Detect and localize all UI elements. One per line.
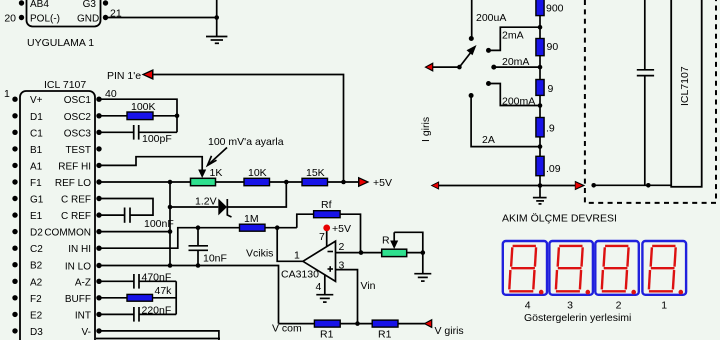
capacitor C bypass [644, 0, 646, 70]
wire node A to op-amp output [277, 228, 303, 262]
pin C2 [12, 246, 17, 251]
wire 20mA [494, 66, 540, 68]
wiper arrow of 1K [198, 170, 206, 179]
svg-text:C REF: C REF [61, 195, 91, 206]
pin F2 [12, 295, 17, 300]
switch SW1 wiper [457, 65, 462, 70]
pin IN HI [96, 246, 101, 251]
pin 7 +5V [326, 228, 328, 246]
wire pot to 10K [216, 181, 245, 183]
svg-text:REF LO: REF LO [55, 178, 91, 189]
wire chain [539, 137, 541, 156]
junction zener anode [168, 205, 173, 210]
svg-text:1: 1 [294, 250, 300, 262]
svg-text:OSC3: OSC3 [64, 128, 92, 139]
wire 47k to bus [153, 297, 177, 299]
pin C REF 2 [96, 212, 101, 217]
svg-text:AB4: AB4 [30, 0, 49, 10]
svg-text:10nF: 10nF [203, 253, 227, 265]
wire OSC3 to C 100pF [99, 131, 133, 133]
ground [414, 274, 431, 281]
svg-text:PIN 1'e: PIN 1'e [107, 70, 141, 82]
plus sign [328, 266, 334, 272]
op-amp U3 CA3130 [303, 241, 336, 281]
wire pot right [407, 252, 423, 254]
svg-text:R: R [382, 235, 390, 247]
resistor 100K [127, 112, 153, 120]
wire OSC2 to 100K [99, 115, 127, 117]
svg-text:100 mV'a ayarla: 100 mV'a ayarla [208, 136, 284, 148]
junction 10nF bottom [196, 263, 201, 268]
svg-text:+5V: +5V [332, 223, 351, 235]
wire 100pF to OSC1 line [139, 131, 177, 133]
svg-text:2: 2 [339, 241, 345, 253]
wire vertical to top [216, 0, 218, 37]
junction Vin [355, 321, 360, 326]
pin BUFF [96, 295, 101, 300]
contact 20mA [491, 65, 496, 70]
terminal arrow I giris [424, 62, 433, 72]
pin 21 GND [103, 15, 108, 20]
resistor 90 [536, 39, 544, 56]
resistor 47k [127, 294, 153, 301]
pin TEST [96, 146, 101, 151]
junction 10nF top [196, 225, 201, 230]
wire A-Z to 470nF [99, 280, 134, 282]
svg-text:AKIM ÖLÇME DEVRESI: AKIM ÖLÇME DEVRESI [502, 213, 617, 225]
wire R1 to V giris [398, 323, 425, 325]
wire R1 to R1 [340, 323, 372, 325]
terminal arrow left of rail [431, 181, 440, 190]
potentiometer 1K [191, 178, 216, 185]
svg-text:2A: 2A [482, 134, 495, 146]
terminal arrow V giris [423, 319, 432, 329]
wire 2mA [489, 27, 541, 50]
wire wiper to right node [394, 232, 423, 273]
svg-text:4: 4 [316, 281, 322, 293]
svg-text:D1: D1 [30, 112, 43, 123]
capacitor 220nF [134, 307, 139, 322]
wire V- [99, 331, 219, 340]
svg-text:.9: .9 [546, 123, 555, 135]
pin OSC3 [96, 130, 101, 135]
junction node A [275, 225, 280, 230]
wire REF LO to rail [99, 181, 191, 183]
svg-text:R1: R1 [378, 329, 392, 340]
wire to switch pivot [433, 66, 459, 68]
pin OSC2 [96, 113, 101, 118]
pin F1 [12, 179, 17, 184]
capacitor 100nF [125, 208, 130, 223]
svg-text:2: 2 [616, 300, 622, 312]
wiper arrow of R [393, 232, 395, 243]
svg-text:47k: 47k [155, 285, 173, 297]
junction 200mA tap [538, 103, 543, 108]
contact 200mA [486, 81, 491, 86]
display DS4 [503, 241, 547, 295]
wire IN HI to 1M row [99, 228, 240, 249]
svg-text:REF HI: REF HI [58, 161, 91, 172]
svg-text:GND: GND [77, 14, 99, 25]
wire chain [539, 95, 541, 117]
pin D2 [12, 229, 17, 234]
pin 20 POL(-) [19, 15, 24, 20]
svg-text:E2: E2 [30, 310, 43, 321]
pin B1 [12, 146, 17, 151]
svg-text:100K: 100K [131, 101, 156, 113]
wire 100K to OSC1 line [153, 115, 177, 117]
pin B2 [12, 262, 17, 267]
wire PIN 1'e to +5V node [153, 75, 344, 183]
svg-text:ICL 7107: ICL 7107 [44, 79, 86, 91]
svg-text:BUFF: BUFF [65, 294, 91, 305]
svg-text:F2: F2 [30, 294, 42, 305]
wire bottom rail [439, 185, 578, 187]
wire OSC1 [99, 99, 177, 132]
svg-text:UYGULAMA 1: UYGULAMA 1 [27, 37, 94, 49]
svg-text:G1: G1 [30, 195, 44, 206]
terminal arrow to dashed box [575, 181, 586, 191]
wire chain [539, 16, 541, 39]
wire INT to 220nF [99, 313, 134, 315]
wire REF HI to pot wiper [99, 157, 202, 171]
wire 200mA [489, 84, 541, 106]
svg-text:CA3130: CA3130 [281, 269, 319, 281]
minus sign [328, 251, 334, 253]
resistor R1 [314, 320, 340, 327]
svg-text:3: 3 [339, 260, 345, 272]
pin V- [96, 328, 101, 333]
svg-text:3: 3 [567, 300, 573, 312]
svg-text:E1: E1 [30, 211, 43, 222]
diode D1 1.2V [218, 199, 227, 216]
junction 2mA tap [538, 25, 543, 30]
svg-text:15K: 15K [306, 167, 325, 179]
svg-text:OSC2: OSC2 [64, 112, 92, 123]
svg-text:7: 7 [319, 231, 325, 243]
resistor 1M [240, 224, 266, 231]
svg-text:B2: B2 [30, 261, 43, 272]
wire 10K to 15K [270, 181, 303, 183]
wire inside dashed box [594, 184, 672, 186]
pin COMMON [96, 229, 101, 234]
pin A2 [12, 279, 17, 284]
terminal arrow PIN 1'e [142, 69, 154, 80]
wire 200uA [471, 0, 473, 39]
ground [533, 198, 547, 204]
svg-text:40: 40 [105, 88, 117, 100]
svg-text:INT: INT [75, 310, 91, 321]
wire zener anode [170, 206, 218, 208]
svg-text:C2: C2 [30, 244, 43, 255]
contact 2A [469, 93, 474, 98]
svg-text:+5V: +5V [373, 177, 392, 189]
svg-text:4: 4 [525, 300, 531, 312]
svg-text:V-: V- [82, 327, 91, 338]
svg-text:.09: .09 [546, 163, 561, 175]
pin G3 [103, 0, 108, 5]
wire 15K to +5V [328, 181, 361, 183]
svg-text:90: 90 [547, 41, 559, 53]
ground [206, 37, 227, 44]
pin A1 [12, 163, 17, 168]
svg-text:C1: C1 [30, 128, 43, 139]
wire IN LO row [99, 266, 279, 324]
wire GND pin row [96, 338, 220, 340]
svg-text:Vin: Vin [361, 280, 376, 292]
wire zener cathode to rail [227, 182, 286, 207]
junction [341, 180, 346, 185]
pin IN LO [96, 263, 101, 268]
svg-text:IN HI: IN HI [68, 244, 91, 255]
wire zener branch vertical [169, 182, 171, 266]
svg-text:R1: R1 [320, 329, 334, 340]
pin D1 [12, 113, 17, 118]
svg-text:Vcikis: Vcikis [246, 248, 273, 260]
svg-text:OSC1: OSC1 [64, 95, 92, 106]
terminal arrow +5V [358, 177, 370, 188]
resistor 9 [536, 80, 544, 96]
svg-text:A2: A2 [30, 277, 43, 288]
pin C REF [96, 196, 101, 201]
svg-text:100nF: 100nF [144, 218, 174, 230]
resistor 900 [536, 0, 544, 16]
wire C REF 1 [99, 199, 153, 216]
svg-text:1: 1 [661, 300, 667, 312]
wire 470nF to bus [139, 280, 176, 282]
junction IN LO / zener line [168, 263, 173, 268]
dashed boundary [585, 0, 716, 203]
pin E2 [12, 312, 17, 317]
pin INT [96, 312, 101, 317]
svg-text:2mA: 2mA [502, 30, 524, 42]
resistor 10K [244, 178, 270, 185]
contact 200uA [469, 36, 474, 41]
wire bus A-Z/BUFF/INT [175, 281, 177, 314]
ground [316, 295, 333, 302]
svg-text:V giris: V giris [435, 325, 464, 337]
pin AB4 [19, 0, 24, 5]
svg-text:F1: F1 [30, 178, 42, 189]
svg-text:G3: G3 [83, 0, 97, 10]
contact 2mA [486, 48, 491, 53]
pin 40 OSC1 [96, 97, 101, 102]
annotation arrow [209, 148, 227, 165]
svg-text:Göstergelerin yerlesimi: Göstergelerin yerlesimi [524, 312, 631, 324]
wire BUFF to 47k [99, 297, 127, 299]
svg-text:D3: D3 [30, 327, 43, 338]
resistor .9 [536, 118, 544, 137]
junction COMMON [168, 229, 173, 234]
junction bottom rail [538, 183, 543, 188]
svg-text:A1: A1 [30, 161, 43, 172]
junction [175, 114, 180, 119]
IC U2 UYGULAMA 1 body [27, 0, 101, 27]
wire COMMON [99, 231, 170, 233]
wire 2A [471, 96, 540, 147]
svg-text:C REF: C REF [61, 211, 91, 222]
junction 20mA tap [538, 65, 543, 70]
svg-text:COMMON: COMMON [44, 228, 91, 239]
junction node zener top [168, 180, 173, 185]
junction [214, 15, 219, 20]
display DS2 [595, 241, 639, 295]
resistor 15K [302, 178, 328, 185]
resistor .09 [536, 156, 544, 175]
svg-text:D2: D2 [30, 228, 43, 239]
svg-text:200mA: 200mA [502, 96, 535, 108]
wire GND pin to ground [106, 17, 217, 19]
junction [421, 250, 426, 255]
pin A-Z [96, 279, 101, 284]
svg-text:1: 1 [4, 88, 10, 100]
display DS1 [642, 241, 686, 295]
svg-text:I giris: I giris [420, 117, 432, 142]
junction zener right [284, 180, 289, 185]
svg-text:900: 900 [546, 3, 564, 15]
IC block ICL7107 [671, 0, 702, 187]
wire chain [539, 56, 541, 80]
svg-text:1M: 1M [244, 213, 259, 225]
svg-text:TEST: TEST [65, 145, 91, 156]
pin G1 [12, 196, 17, 201]
junction [359, 250, 364, 255]
wire node A up to Rf [297, 214, 314, 228]
IC U1 ICL7107 body [20, 91, 95, 340]
svg-text:B1: B1 [30, 145, 43, 156]
capacitor 470nF [134, 274, 139, 289]
wire chain bottom [539, 176, 541, 198]
svg-text:100pF: 100pF [142, 133, 172, 145]
resistor Rf [314, 211, 341, 218]
capacitor 100pF [134, 125, 139, 140]
pin C1 [12, 130, 17, 135]
display DS3 [549, 241, 593, 295]
wire Rf right [340, 214, 360, 252]
svg-text:20: 20 [4, 13, 16, 25]
pin 2 wire [336, 252, 382, 254]
svg-text:20mA: 20mA [502, 56, 529, 68]
pin REF HI [96, 163, 101, 168]
potentiometer R [382, 249, 407, 256]
svg-text:V+: V+ [30, 95, 43, 106]
svg-text:Rf: Rf [321, 199, 332, 211]
pin E1 [12, 212, 17, 217]
svg-text:A-Z: A-Z [75, 277, 91, 288]
svg-text:V com: V com [272, 323, 302, 335]
wire C REF 2 [99, 214, 125, 216]
svg-text:ICL7107: ICL7107 [679, 66, 691, 106]
svg-text:200uA: 200uA [476, 12, 506, 24]
junction 2A tap [538, 144, 543, 149]
resistor R1 b [372, 320, 398, 327]
svg-text:1.2V: 1.2V [195, 196, 217, 208]
wire 220nF to bus [139, 313, 176, 315]
pin 4 ground wire [324, 274, 326, 294]
pin D3 [12, 328, 17, 333]
svg-text:IN LO: IN LO [65, 262, 91, 273]
svg-text:9: 9 [548, 83, 554, 95]
svg-text:1K: 1K [210, 167, 223, 179]
pin REF LO [96, 179, 101, 184]
svg-text:10K: 10K [248, 167, 267, 179]
capacitor 10nF [189, 246, 209, 251]
wire 1M to node A [265, 227, 297, 229]
svg-text:POL(-): POL(-) [30, 14, 60, 25]
wire V com row [279, 323, 315, 325]
pin 3 wire [336, 270, 358, 324]
